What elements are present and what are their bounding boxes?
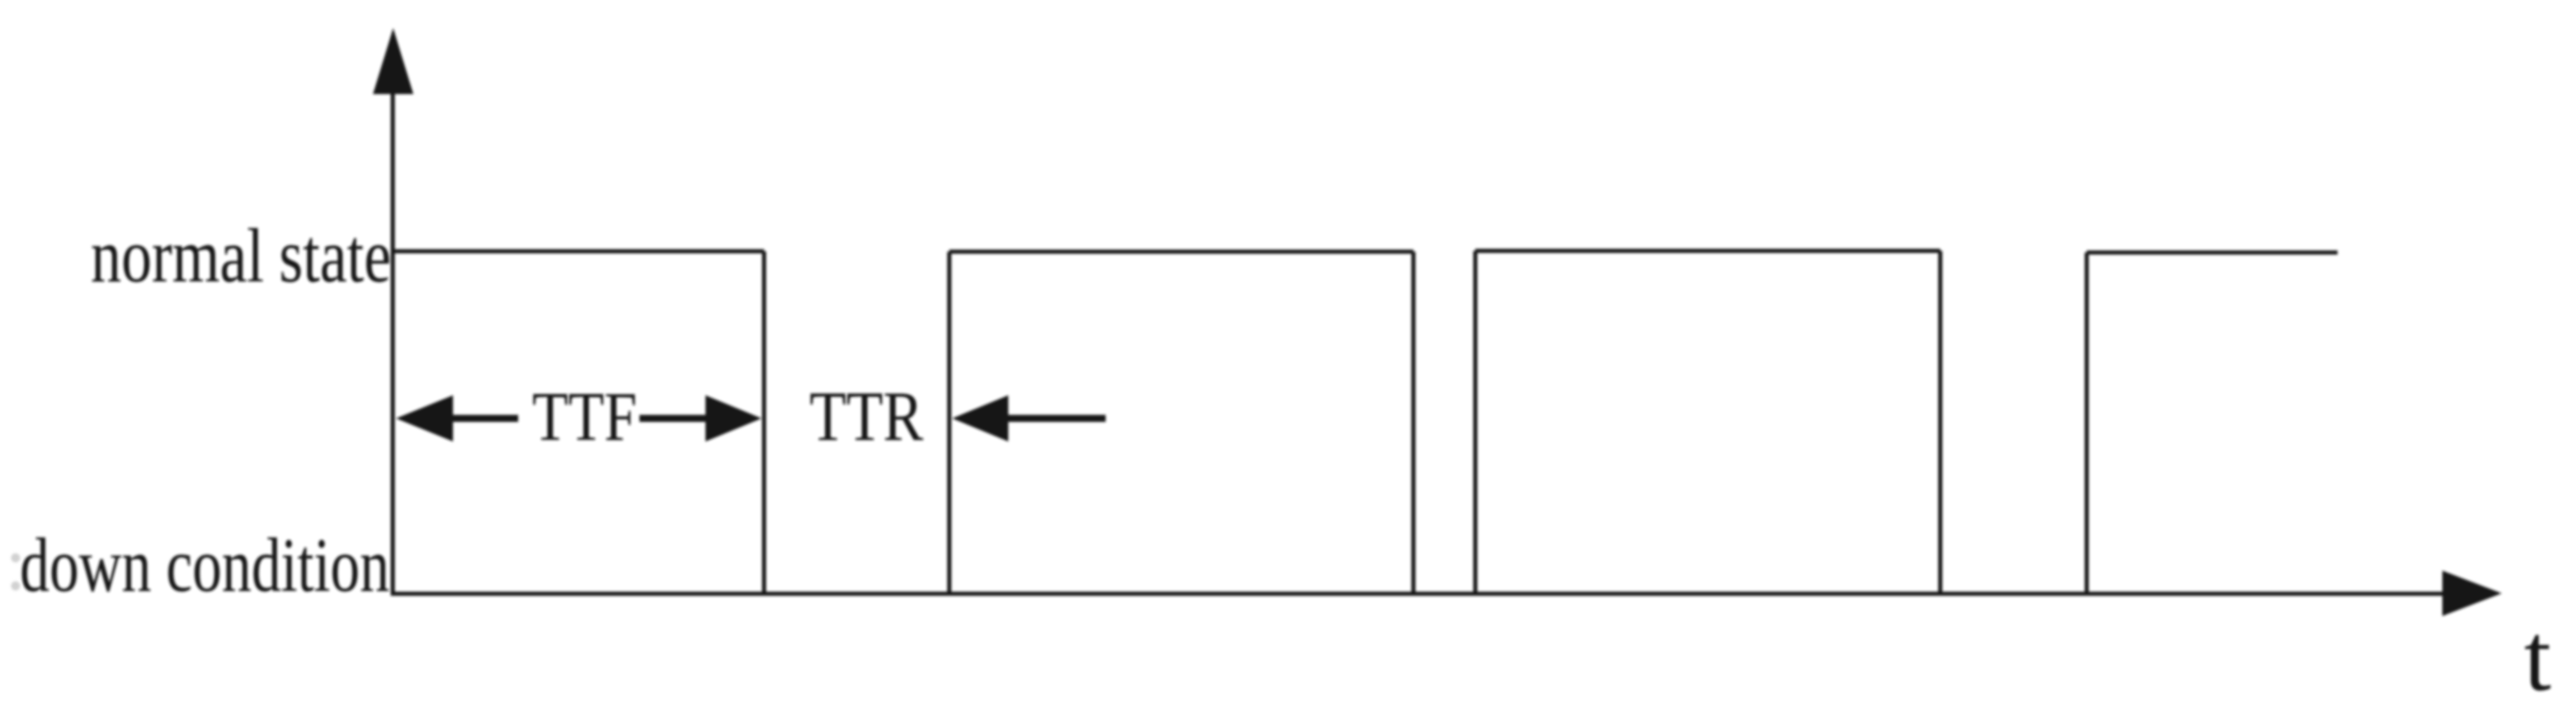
pulse 3 rising edge [1474,251,1478,594]
y-axis arrowhead [373,28,413,94]
pulse 4 rising edge [2085,253,2089,594]
TTR arrowhead (points left to rising edge) [952,395,1008,441]
svg-text:normal state: normal state [91,214,391,299]
svg-text:t: t [2524,603,2551,711]
TTF right arrow tail [639,415,706,423]
svg-text:down condition: down condition [20,523,389,608]
svg-text::: : [5,522,26,607]
TTF left arrowhead (points left to y-axis) [396,395,453,441]
pulse 2 rising edge [947,252,951,594]
pulse 1 falling edge [762,252,767,594]
TTR arrow tail [1008,415,1106,423]
pulse 3 falling edge [1938,251,1942,594]
y-axis (state axis) [391,91,395,596]
svg-text:TTR: TTR [809,376,924,456]
svg-text:TTF: TTF [532,378,637,456]
TTF left arrow tail [452,415,518,423]
pulse 1 top (normal state segment) [393,249,764,253]
pulse 2 top [950,250,1414,254]
pulse 4 top (truncated, no falling edge) [2087,251,2338,255]
pulse 2 falling edge [1412,252,1416,594]
x-axis (time axis) [391,592,2446,596]
x-axis arrowhead [2442,571,2502,616]
TTF right arrowhead (points right to falling edge) [705,395,762,441]
pulse 3 top [1475,249,1941,253]
